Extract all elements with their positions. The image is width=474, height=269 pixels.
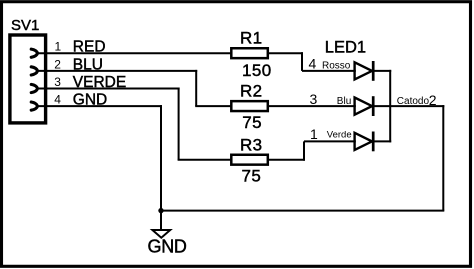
svg-text:Verde: Verde (327, 129, 352, 140)
pin name Verde (327, 129, 352, 140)
svg-text:150: 150 (242, 61, 272, 80)
svg-text:R3: R3 (240, 135, 263, 154)
svg-text:Rosso: Rosso (322, 60, 351, 71)
LED pin number 3 (310, 91, 318, 107)
wire Rosso anode (302, 70, 356, 72)
svg-text:3: 3 (54, 75, 61, 89)
LED pin number 2 (429, 92, 437, 108)
svg-text:75: 75 (242, 167, 262, 186)
wire RED pin1 to R1 (37, 52, 231, 54)
resistor R1 body (231, 48, 267, 58)
svg-text:2: 2 (429, 92, 437, 108)
resistor R2 body (231, 101, 267, 111)
connector pin 1 (31, 49, 37, 57)
net label VERDE (73, 74, 126, 91)
wire R1 output (268, 52, 303, 54)
LED pin number 1 (310, 126, 318, 142)
pin number 1 (55, 40, 62, 54)
connector pin 3 (31, 84, 37, 92)
wire VERDE vertical drop (178, 88, 180, 160)
wire riser R3 to Verde row (303, 141, 305, 160)
value 75 (R2) (242, 113, 262, 132)
svg-text:2: 2 (54, 57, 61, 71)
svg-text:GND: GND (148, 236, 187, 256)
connector pin 2 (31, 67, 37, 75)
wire BLU to R2 (195, 105, 231, 107)
net label RED (73, 39, 106, 56)
wire cathode bus vertical (389, 70, 391, 142)
value 150 (242, 61, 272, 80)
net label BLU (73, 56, 103, 73)
svg-text:3: 3 (310, 91, 318, 107)
wire Rosso cathode to bus (374, 70, 391, 72)
svg-text:1: 1 (310, 126, 318, 142)
connector pin 4 (31, 102, 37, 110)
value 75 (R3) (242, 167, 262, 186)
label R1 (240, 28, 263, 47)
wire right side vertical (442, 105, 444, 211)
wire R2 output to Blu anode (268, 105, 356, 107)
ground symbol (152, 230, 170, 238)
label SV1 (11, 17, 39, 34)
wire Verde anode (304, 140, 356, 142)
wire BLU vertical drop (195, 70, 197, 106)
svg-text:1: 1 (55, 40, 62, 54)
label R3 (240, 135, 263, 154)
svg-text:Catodo: Catodo (397, 96, 430, 107)
svg-text:75: 75 (242, 113, 262, 132)
svg-text:R2: R2 (240, 81, 263, 100)
pin number 2 (54, 57, 61, 71)
wire GND pin4 horizontal (37, 105, 162, 107)
wire VERDE to R3 (178, 159, 231, 161)
pin name Catodo (397, 96, 430, 107)
wire VERDE pin3 horizontal (37, 88, 180, 90)
LED diode Blu (355, 96, 374, 116)
wire Verde cathode to bus (374, 140, 391, 142)
svg-text:R1: R1 (240, 28, 263, 47)
pin number 4 (54, 93, 61, 107)
svg-text:SV1: SV1 (11, 17, 39, 34)
label GND (148, 236, 187, 256)
net label GND (73, 92, 107, 109)
pin name Rosso (322, 60, 351, 71)
label R2 (240, 81, 263, 100)
wire GND stem (160, 211, 162, 230)
pin name Blu (337, 96, 351, 107)
pin number 3 (54, 75, 61, 89)
LED diode Rosso (355, 61, 374, 81)
connector SV1 body (10, 35, 46, 123)
junction dot (158, 208, 163, 213)
svg-text:4: 4 (54, 93, 61, 107)
wire GND vertical drop (160, 105, 162, 211)
svg-text:4: 4 (309, 56, 317, 72)
LED pin number 4 (309, 56, 317, 72)
resistor R3 body (231, 155, 267, 165)
svg-text:Blu: Blu (337, 96, 351, 107)
wire riser R1 to Rosso row (301, 52, 303, 71)
svg-text:LED1: LED1 (325, 39, 366, 57)
wire catodo row to right (374, 105, 444, 107)
wire BLU pin2 horizontal (37, 70, 197, 72)
wire R3 output (268, 159, 305, 161)
label LED1 (325, 39, 366, 57)
LED diode Verde (355, 132, 374, 152)
wire bottom bus (161, 210, 444, 212)
